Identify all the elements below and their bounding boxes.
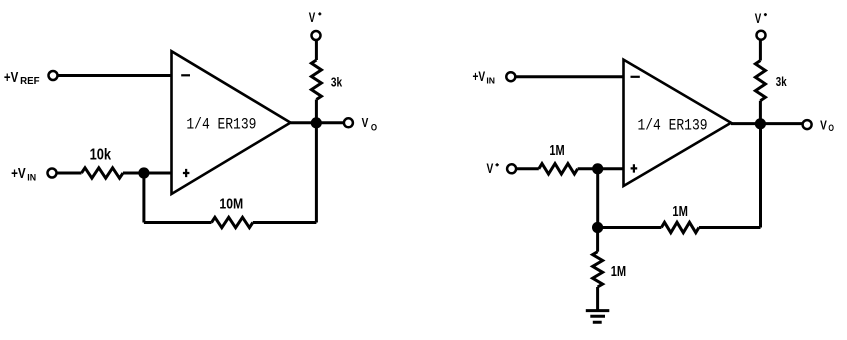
junction node at output right	[755, 118, 766, 129]
wire output node up to R 3k right	[759, 101, 762, 124]
svg-text:+V: +V	[4, 70, 19, 86]
wire R 10k to op-amp noninverting input	[123, 172, 172, 175]
svg-text:V: V	[755, 11, 762, 26]
svg-text:IN: IN	[486, 76, 495, 86]
terminal +VIN	[48, 169, 57, 178]
svg-text:10k: 10k	[90, 147, 112, 164]
wire junction down to feedback	[142, 173, 145, 223]
svg-text:1M: 1M	[549, 143, 564, 159]
wire VIN to op-amp inverting input right	[516, 75, 624, 78]
terminal +VIN right	[506, 72, 515, 81]
resistor 10k	[82, 168, 124, 178]
terminal V+ top left circuit	[312, 31, 321, 40]
resistor 1M input	[539, 164, 578, 174]
op-amp U1 plus pin mark	[183, 169, 190, 177]
svg-text:1/4 ER139: 1/4 ER139	[638, 116, 708, 134]
resistor 1M feedback	[661, 222, 699, 232]
wire V+ to R 1M	[516, 167, 539, 170]
wire R 3k to V+ terminal right	[759, 40, 762, 61]
svg-text:1/4 ER139: 1/4 ER139	[186, 116, 256, 134]
svg-text:3k: 3k	[331, 74, 343, 89]
ground	[586, 311, 610, 323]
wire R 1M to ground	[596, 287, 599, 310]
resistor 1M to ground	[593, 252, 603, 287]
wire VREF to op-amp inverting input	[58, 74, 173, 77]
wire VIN to R 10k	[57, 172, 82, 175]
junction node at noninverting input right	[592, 163, 603, 174]
svg-text:V: V	[309, 10, 316, 25]
op-amp U1 1/4 ER139	[172, 51, 291, 194]
junction node lower right circuit	[592, 222, 603, 233]
wire junction down	[596, 169, 599, 228]
op-amp U1 minus pin mark	[181, 74, 190, 76]
wire output node up to R 3k	[315, 100, 318, 123]
svg-text:3k: 3k	[776, 74, 787, 89]
op-amp U2 1/4 ER139	[624, 60, 732, 186]
svg-text:IN: IN	[27, 173, 36, 183]
svg-text:REF: REF	[20, 76, 39, 87]
terminal VO	[344, 118, 353, 127]
junction node at output	[311, 117, 322, 128]
svg-text:+V: +V	[473, 69, 486, 84]
svg-text:O: O	[828, 123, 834, 133]
wire lower junction down to R 1M ground leg	[596, 228, 599, 252]
svg-text:O: O	[371, 122, 377, 132]
wire R 1M to noninverting input	[578, 167, 624, 170]
op-amp U2 plus pin mark	[631, 164, 638, 172]
wire op-amp output	[291, 121, 344, 124]
resistor 10M	[212, 217, 253, 227]
svg-text:1M: 1M	[611, 264, 626, 280]
terminal +VREF	[49, 71, 58, 80]
svg-text:V: V	[362, 115, 369, 130]
junction node at noninverting input	[138, 167, 149, 178]
wire feedback up to output node right	[759, 124, 762, 228]
resistor 3k right	[755, 61, 765, 101]
resistor 3k	[311, 60, 321, 100]
wire op-amp output right	[731, 122, 803, 125]
wire feedback up to output node	[315, 123, 318, 223]
wire feedback bottom left	[144, 221, 212, 224]
svg-text:10M: 10M	[219, 196, 243, 213]
wire feedback bottom right	[253, 221, 317, 224]
terminal V+ top right circuit	[757, 31, 766, 40]
op-amp U2 minus pin mark	[631, 76, 640, 78]
svg-text:1M: 1M	[672, 204, 688, 220]
svg-text:V: V	[820, 118, 827, 133]
terminal VO right	[803, 120, 812, 129]
wire feedback bottom right right circuit	[699, 226, 761, 229]
terminal V+ left input right circuit	[507, 164, 516, 173]
wire feedback bottom left right circuit	[598, 226, 662, 229]
svg-text:V: V	[487, 161, 494, 176]
wire R 3k to V+ terminal	[315, 40, 318, 60]
svg-text:+V: +V	[11, 166, 26, 182]
